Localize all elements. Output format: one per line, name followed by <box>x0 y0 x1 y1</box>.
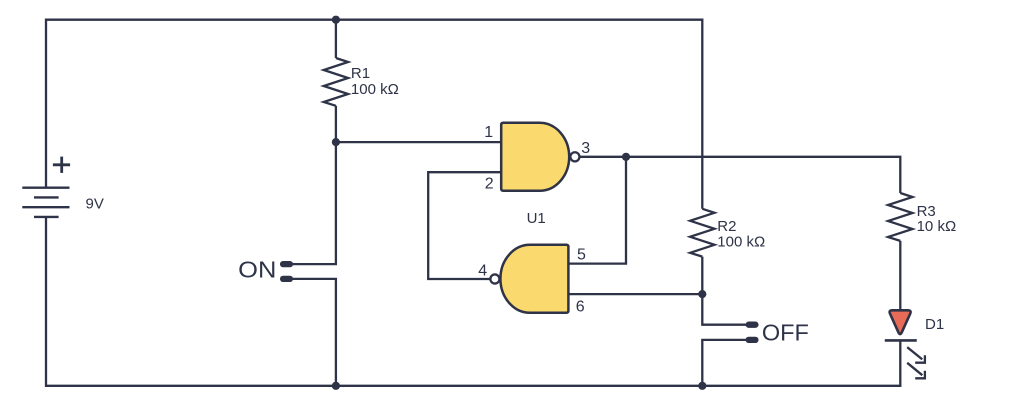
wire R1 bottom to ON switch upper contact <box>290 106 336 264</box>
NAND gate U1b output bubble <box>490 274 499 283</box>
wire feedback pin2 to pin4 <box>428 172 501 279</box>
switch OFF terminals <box>749 325 756 340</box>
LED D1 triangle <box>890 310 911 334</box>
node output pin3 / pin5 <box>622 153 630 161</box>
svg-text:5: 5 <box>577 247 586 264</box>
node R2 / pin6 <box>698 290 706 298</box>
switch ON terminals <box>283 264 290 279</box>
svg-text:9V: 9V <box>86 195 104 212</box>
NAND gate U1a output bubble <box>570 152 579 161</box>
svg-text:U1: U1 <box>527 210 546 227</box>
wire pin5 to output junction <box>568 157 626 264</box>
node bottom rail / ON <box>332 382 340 390</box>
wire output pin3 to R3 column <box>580 157 900 193</box>
wire pin 1 input <box>336 141 501 143</box>
svg-text:R1: R1 <box>351 65 370 82</box>
svg-text:1: 1 <box>484 124 493 141</box>
svg-text:2: 2 <box>485 175 494 192</box>
NAND gate U1a body <box>501 123 569 191</box>
svg-text:100 kΩ: 100 kΩ <box>351 81 399 98</box>
resistor R3 <box>888 193 912 241</box>
svg-text:10 kΩ: 10 kΩ <box>917 218 957 235</box>
wire ON switch lower contact to bottom rail <box>290 279 336 386</box>
wire R1 top from rail to resistor <box>335 20 337 58</box>
svg-text:D1: D1 <box>925 316 944 333</box>
battery plus sign <box>53 157 70 173</box>
wire pin6 to R2 junction <box>568 293 702 295</box>
node R1 / pin1 / ON <box>332 138 340 146</box>
LED light arrow 2 <box>907 363 925 379</box>
wire bottom rail from battery - to LED cathode <box>46 217 900 386</box>
svg-text:100 kΩ: 100 kΩ <box>717 234 765 251</box>
wire OFF switch lower contact to bottom rail <box>702 340 747 386</box>
svg-text:R2: R2 <box>717 218 736 235</box>
svg-text:ON: ON <box>238 257 276 283</box>
svg-text:6: 6 <box>576 298 585 315</box>
LED light arrow 1 <box>907 347 925 363</box>
wire R2 bottom to OFF switch upper contact <box>702 257 747 325</box>
svg-text:OFF: OFF <box>762 320 809 346</box>
battery 9V <box>22 188 69 217</box>
resistor R2 <box>690 209 714 257</box>
wire top rail from battery + to R2 column <box>46 20 702 209</box>
node top rail / R1 <box>332 16 340 24</box>
resistor R1 <box>324 58 348 106</box>
wire R3 bottom to LED anode <box>899 241 901 310</box>
svg-text:3: 3 <box>581 140 590 157</box>
svg-text:4: 4 <box>478 263 487 280</box>
LED D1 cathode bar <box>885 339 917 342</box>
node bottom rail / OFF <box>698 382 706 390</box>
NAND gate U1b body (mirrored) <box>500 245 568 313</box>
